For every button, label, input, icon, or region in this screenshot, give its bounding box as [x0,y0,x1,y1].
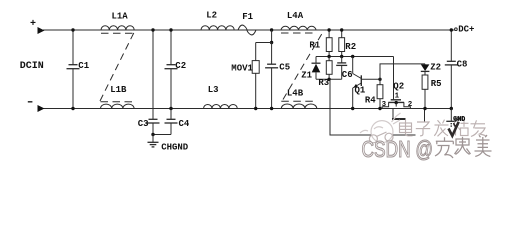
svg-text:CSDN @: CSDN @ [362,136,434,162]
svg-text:Z2: Z2 [430,63,441,73]
svg-text:3: 3 [382,101,387,109]
capacitor C1 [67,28,80,110]
svg-text:Q1: Q1 [355,85,366,95]
node DC+ terminal [455,28,458,31]
wire MOV1/C5 drop [271,30,273,43]
core dash under L4A [281,32,316,34]
inductor L1A [101,26,134,30]
wire loop from Z1/R3 node down around to R5 rail node [330,79,425,135]
svg-text:L1B: L1B [110,85,127,95]
core dash above L4B [281,100,315,102]
capacitor C8 [445,28,458,110]
node - input terminal [38,105,45,112]
zener Z2 [421,64,430,75]
inductor L4B [281,104,316,109]
svg-text:C2: C2 [175,61,186,71]
inductor L2 [201,26,234,30]
capacitor C4 [151,109,177,137]
fuse F1 [238,25,256,35]
node + input terminal [38,27,45,34]
ground tab below Q2 [392,109,406,120]
svg-text:DC+: DC+ [458,25,474,35]
capacitor C5 [265,43,278,111]
svg-text:F1: F1 [242,12,253,22]
wire top rail [43,29,455,31]
svg-text:L4A: L4A [287,11,304,21]
svg-text:DCIN: DCIN [20,61,44,72]
svg-text:C6: C6 [342,70,353,80]
svg-text:C8: C8 [457,60,468,70]
svg-text:R1: R1 [309,41,320,51]
node - minus sign [28,101,33,103]
core dash above L1B [101,101,135,103]
svg-text:L1A: L1A [112,12,129,22]
svg-text:GND: GND [454,116,465,123]
resistor R1 [326,28,332,56]
svg-text:R5: R5 [431,79,442,89]
node DCIN labels [20,19,44,72]
svg-text:R4: R4 [365,96,376,106]
inductor L3 [204,104,238,108]
core diagonal dashed L1 [100,33,134,102]
watermark doodle sketch [360,113,401,143]
svg-text:C3: C3 [138,119,149,129]
ground CHGND [148,135,159,147]
svg-text:C4: C4 [179,119,190,129]
resistor R2 [339,28,345,56]
svg-text:Q2: Q2 [393,82,404,92]
svg-text:C5: C5 [279,62,290,72]
svg-text:C1: C1 [78,61,89,71]
resistor R4 [377,78,383,111]
capacitor C6 [336,57,347,80]
svg-text:2: 2 [408,101,413,109]
svg-text:R3: R3 [318,78,329,88]
svg-text:R2: R2 [345,42,356,52]
watermark outline text 电子发烧友 [400,120,488,137]
capacitor C2 [165,28,178,110]
svg-text:L2: L2 [206,10,217,20]
core dash under L1A [101,32,133,34]
watermark outline text 安森美 [435,135,492,158]
resistor R3 [326,57,332,80]
wire W3 node row [316,78,342,81]
wire bottom rail [43,108,451,110]
svg-text:CHGND: CHGND [161,143,189,153]
ground GND [446,109,456,127]
varistor MOV1 [252,43,259,111]
inductor L4A [281,26,316,30]
core diagonal dashed L4 [283,34,322,100]
wire W1 node row [316,55,394,58]
svg-text:MOV1: MOV1 [231,64,253,74]
dark wedge near GND [449,122,459,136]
svg-text:1: 1 [395,93,400,101]
GND label and ground mark on top of watermark [449,116,466,136]
svg-text:Z1: Z1 [301,70,312,80]
zener Z1 [312,57,321,80]
transistor Q1 [351,57,380,111]
capacitor C3 [147,119,160,134]
wire vertical line to C3 from top rail [152,30,154,119]
node F1 junction [270,28,273,31]
svg-text:L3: L3 [208,85,219,95]
resistor R5 [422,75,428,110]
svg-text:+: + [30,19,36,30]
inductor L1B [101,104,135,108]
transistor Q2 [382,57,410,109]
svg-text:L4B: L4B [287,89,304,99]
wire W2 to zener branch [380,64,425,79]
